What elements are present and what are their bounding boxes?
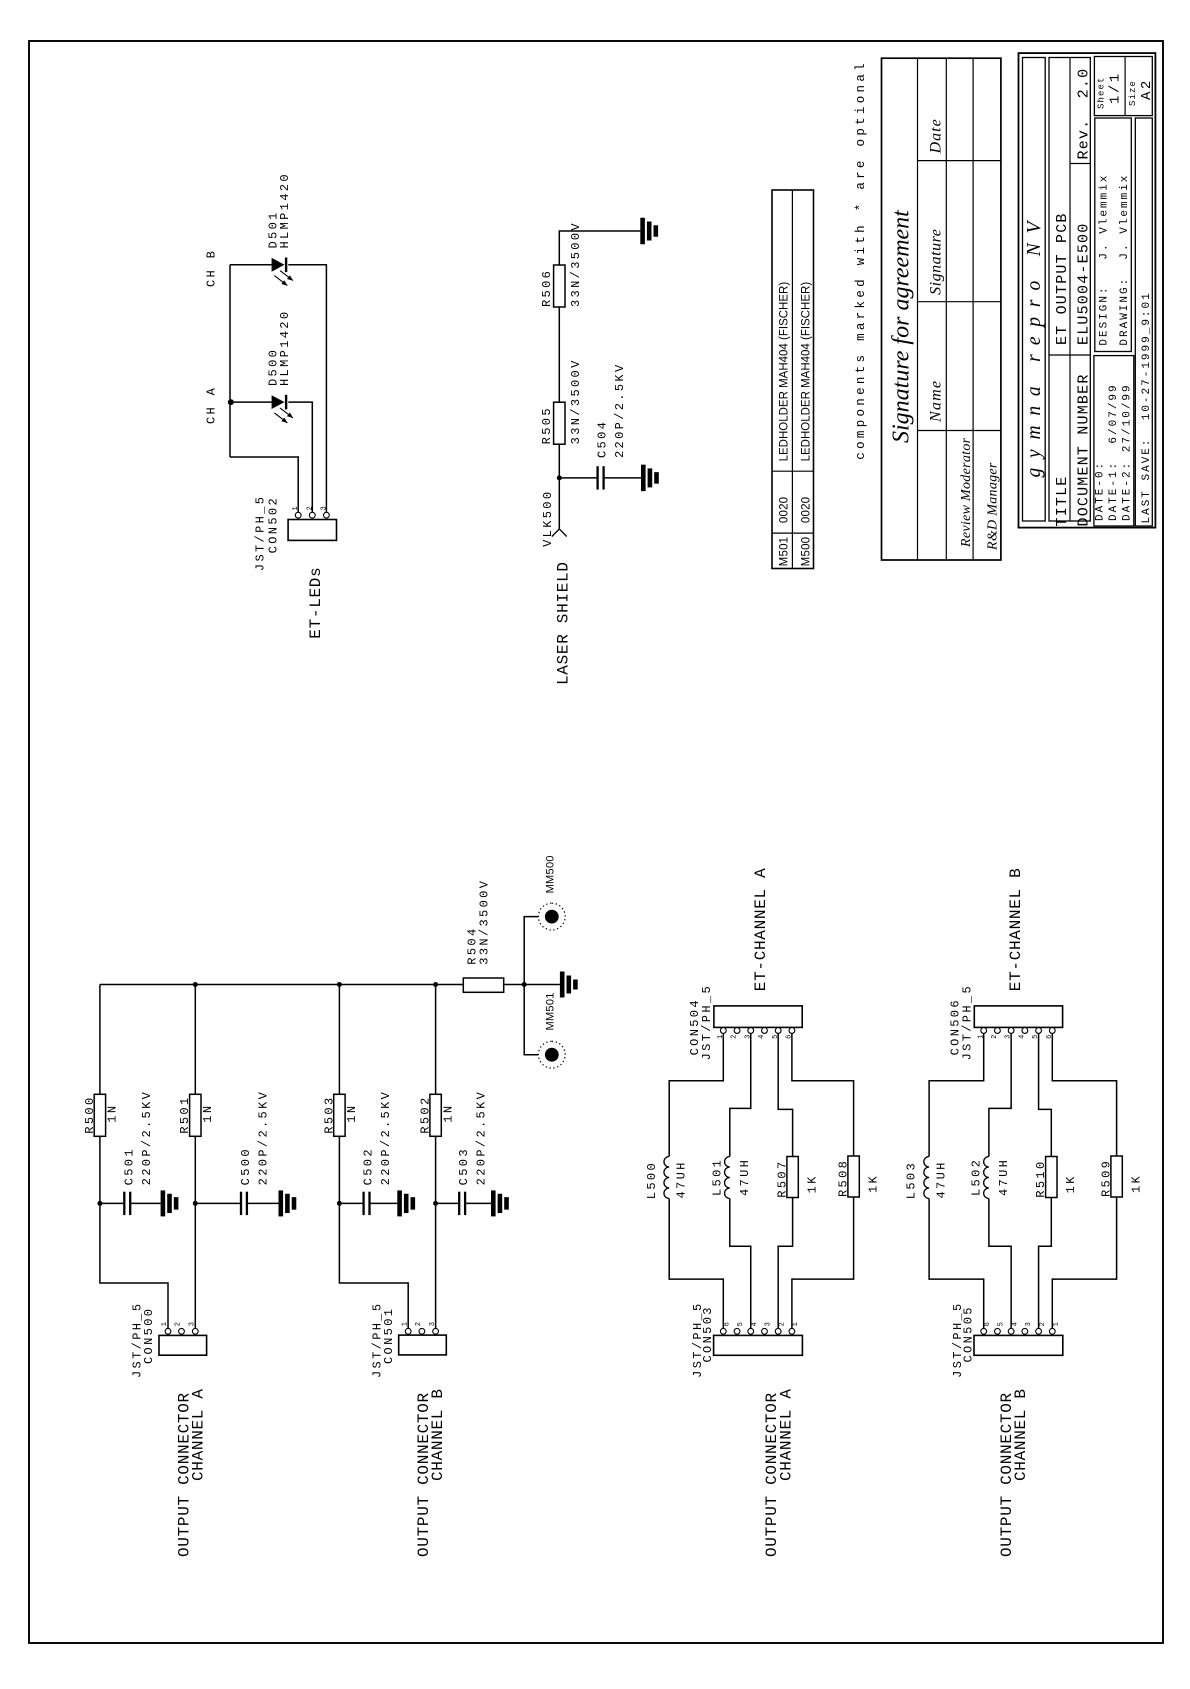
junction dot measurement node (522, 982, 527, 987)
CON505 pin 2 (1036, 1328, 1042, 1334)
wire R502 branch (435, 1136, 437, 1329)
inductor L501 (725, 1157, 730, 1199)
test point MM500 (538, 903, 565, 930)
connector CON502 body (JST/PH-5) (288, 520, 336, 541)
svg-text:3: 3 (320, 506, 328, 510)
svg-text:DRAWING: J. Vlemmix: DRAWING: J. Vlemmix (1119, 174, 1131, 346)
svg-text:2: 2 (731, 1035, 739, 1039)
resistor R501 (190, 1094, 201, 1136)
wire junction to C504 (559, 477, 597, 479)
svg-text:C502: C502 (362, 1147, 376, 1185)
svg-text:220P/2.5KV: 220P/2.5KV (379, 1090, 393, 1186)
wire top rail of LED block (229, 265, 231, 457)
svg-text:components marked with * are o: components marked with * are optional (854, 60, 868, 460)
svg-text:3: 3 (429, 1322, 437, 1326)
net stub VLK500 open arrow (552, 529, 559, 537)
wire C504 to ground (605, 477, 641, 479)
svg-text:1K: 1K (806, 1174, 820, 1193)
CON505 pin 1 (1049, 1328, 1055, 1334)
resistor R503 (334, 1094, 345, 1136)
wire R508 to CON504 pin6 (792, 1033, 854, 1156)
resistor R506 (554, 265, 565, 307)
svg-text:LEDHOLDER MAH404 (FISCHER): LEDHOLDER MAH404 (FISCHER) (779, 282, 791, 462)
CON500 pin 2 (179, 1328, 185, 1334)
CON503 pin 4 (748, 1328, 754, 1334)
connector CON506 body (JST/PH-5) (974, 1006, 1062, 1028)
wire R510 to CON506 pin5 (1039, 1033, 1052, 1156)
svg-text:47UH: 47UH (738, 1158, 752, 1196)
table of LED holders M500 M501 (772, 190, 814, 569)
svg-text:VLK500: VLK500 (541, 490, 555, 547)
svg-text:1K: 1K (1064, 1174, 1078, 1193)
svg-text:DATE-1: 6/07/99: DATE-1: 6/07/99 (1108, 383, 1120, 521)
svg-text:C501: C501 (122, 1147, 136, 1185)
wire CON503 pin6 to L500 (669, 1199, 723, 1329)
svg-text:ET OUTPUT PCB: ET OUTPUT PCB (1054, 212, 1071, 345)
wire R506 to ground (559, 231, 640, 265)
connector CON505 body (JST/PH-5) (974, 1335, 1063, 1355)
svg-text:L503: L503 (905, 1161, 919, 1199)
resistor R500 (94, 1094, 105, 1136)
svg-text:CHANNEL B: CHANNEL B (429, 1388, 447, 1481)
svg-text:CON505: CON505 (961, 1305, 975, 1362)
svg-text:LEDHOLDER MAH404 (FISCHER): LEDHOLDER MAH404 (FISCHER) (801, 282, 813, 462)
svg-text:LAST SAVE: 10-27-1999_9:01: LAST SAVE: 10-27-1999_9:01 (1141, 291, 1153, 523)
CON504 pin 6 (789, 1028, 795, 1034)
svg-text:4: 4 (1011, 1322, 1019, 1326)
svg-text:DATE-0:: DATE-0: (1095, 461, 1107, 521)
svg-text:4: 4 (758, 1035, 766, 1039)
svg-text:R509: R509 (1099, 1159, 1113, 1197)
wire VLK500 to junction (558, 444, 560, 529)
svg-text:R507: R507 (775, 1159, 789, 1197)
svg-text:1N: 1N (201, 1104, 215, 1123)
svg-text:Signature for agreement: Signature for agreement (889, 209, 915, 443)
CON502 pin 2 (309, 512, 315, 518)
wire C501 to ground (130, 1202, 161, 1204)
svg-text:2: 2 (306, 506, 314, 510)
CON503 pin 6 (720, 1328, 726, 1334)
wire R505 to R506 (558, 307, 560, 402)
svg-text:47UH: 47UH (674, 1160, 688, 1198)
wire R504 to junction (504, 984, 525, 986)
svg-text:Review Moderator: Review Moderator (959, 437, 974, 548)
CON503 pin 3 (762, 1328, 768, 1334)
svg-text:2: 2 (991, 1035, 999, 1039)
svg-text:Rev. 2.0: Rev. 2.0 (1076, 68, 1093, 160)
junction dot bus-R502 (433, 982, 438, 987)
wire CON505 pin6 to L503 (929, 1199, 984, 1329)
CON501 pin 3 (433, 1328, 439, 1334)
CON500 pin 1 (165, 1328, 171, 1334)
svg-text:3: 3 (1025, 1322, 1033, 1326)
connector CON500 body (JST/PH-5) (159, 1335, 207, 1355)
CON505 pin 5 (995, 1328, 1001, 1334)
ground symbol for C502 (397, 1190, 402, 1216)
wire CON503 pin4 to L501 (730, 1199, 751, 1329)
CON501 pin 1 (405, 1328, 411, 1334)
svg-text:1K: 1K (1130, 1174, 1144, 1193)
svg-text:CH B: CH B (205, 249, 219, 287)
resistor R508 (848, 1156, 859, 1197)
svg-text:R510: R510 (1034, 1159, 1048, 1197)
node junction dot on CH A branch (228, 399, 234, 405)
wire R501 to bus (194, 985, 196, 1095)
CON503 pin 1 (789, 1328, 795, 1334)
svg-text:ELU5004-E500: ELU5004-E500 (1076, 223, 1093, 345)
title block company band (1023, 58, 1046, 522)
title block title and document rows box (1049, 58, 1090, 522)
svg-text:gymna repro NV: gymna repro NV (1024, 212, 1045, 478)
CON504 pin 2 (734, 1028, 740, 1034)
wire D501 anode stem (230, 264, 272, 266)
resistor R504 (463, 978, 503, 992)
svg-text:R508: R508 (836, 1159, 850, 1197)
ground symbol for C504 (641, 465, 646, 492)
svg-text:5: 5 (737, 1322, 745, 1326)
svg-text:R503: R503 (322, 1095, 336, 1133)
svg-text:47UH: 47UH (934, 1160, 948, 1198)
wire R501 branch (194, 1136, 196, 1329)
inductor L503 (924, 1157, 929, 1199)
wire CON503 pin2 to R507 (778, 1198, 792, 1329)
svg-text:R501: R501 (178, 1095, 192, 1133)
CON502 pin 1 (295, 512, 301, 518)
junction dot VLK500 node (557, 475, 562, 480)
svg-text:1N: 1N (441, 1104, 455, 1123)
svg-text:1N: 1N (345, 1104, 359, 1123)
wire C503 to ground (465, 1202, 492, 1204)
wire junction to C503 (436, 1202, 460, 1204)
resistor R509 (1111, 1156, 1122, 1197)
CON503 pin 5 (734, 1328, 740, 1334)
LED D500 (272, 395, 285, 409)
svg-text:1N: 1N (106, 1104, 120, 1123)
svg-text:A2: A2 (1139, 78, 1155, 100)
svg-text:ET-LEDs: ET-LEDs (307, 567, 325, 639)
CON504 pin 3 (748, 1028, 754, 1034)
svg-text:220P/2.5KV: 220P/2.5KV (257, 1090, 271, 1186)
svg-text:Sheet: Sheet (1097, 76, 1107, 109)
capacitor C502 (362, 1192, 364, 1215)
svg-text:Date: Date (928, 118, 945, 154)
LED D501 (272, 258, 285, 272)
CON505 pin 3 (1022, 1328, 1028, 1334)
resistor R510 (1046, 1157, 1057, 1198)
capacitor C501 (123, 1192, 125, 1215)
wire R509 to CON506 pin6 (1052, 1033, 1116, 1156)
capacitor C500 (240, 1192, 242, 1215)
wire CON505 pin4 to L502 (989, 1199, 1011, 1329)
CON503 pin 2 (775, 1328, 781, 1334)
svg-text:MM501: MM501 (544, 992, 556, 1030)
title block outer frame (1019, 53, 1156, 528)
CON502 pin 3 (324, 512, 330, 518)
svg-text:1: 1 (401, 1322, 409, 1326)
ground symbol for C503 (491, 1190, 496, 1216)
CON506 pin 3 (1008, 1028, 1014, 1034)
wire junction to C501 (100, 1202, 125, 1204)
wire junction to main ground (524, 984, 560, 986)
svg-text:CON500: CON500 (142, 1307, 156, 1364)
wire junction to MM500 (524, 917, 538, 985)
svg-text:1/1: 1/1 (1108, 71, 1124, 104)
svg-text:ET-CHANNEL B: ET-CHANNEL B (1007, 868, 1025, 992)
junction dot C501 tap (97, 1201, 102, 1206)
junction dot C503 tap (433, 1201, 438, 1206)
CON506 pin 5 (1036, 1028, 1042, 1034)
CON506 pin 6 (1049, 1028, 1055, 1034)
CON505 pin 4 (1008, 1328, 1014, 1334)
CON504 pin 4 (762, 1028, 768, 1034)
svg-text:DOCUMENT NUMBER: DOCUMENT NUMBER (1076, 373, 1093, 526)
svg-text:CH A: CH A (205, 386, 219, 424)
capacitor C504 (596, 466, 598, 489)
wire CON502 pin3 to D501 cathode (288, 265, 326, 513)
CON505 pin 6 (981, 1328, 987, 1334)
title block last save box (1135, 118, 1152, 526)
connector CON504 body (JST/PH-5) (714, 1006, 802, 1028)
wire C502 to ground (369, 1202, 397, 1204)
capacitor C503 (458, 1192, 460, 1215)
wire junction to MM501 (524, 985, 538, 1055)
svg-text:Size: Size (1128, 80, 1138, 106)
CON504 pin 1 (720, 1028, 726, 1034)
svg-text:1: 1 (292, 506, 300, 510)
inductor L500 (664, 1157, 669, 1199)
wire R503 to bus (338, 985, 340, 1095)
svg-text:1: 1 (161, 1322, 169, 1326)
wire L501 to CON504 pin3 (730, 1033, 751, 1156)
svg-text:1: 1 (792, 1322, 800, 1326)
svg-text:JST/PH_5: JST/PH_5 (700, 984, 714, 1060)
wire CON503 pin1 to R508 (792, 1197, 854, 1329)
wire L502 to CON506 pin3 (989, 1033, 1011, 1156)
svg-text:M500: M500 (801, 537, 813, 567)
svg-text:Name: Name (928, 380, 945, 423)
svg-text:6: 6 (984, 1322, 992, 1326)
ground symbol after R506 (640, 218, 645, 245)
svg-text:R506: R506 (540, 269, 554, 307)
svg-text:2: 2 (175, 1322, 183, 1326)
svg-text:C500: C500 (239, 1147, 253, 1185)
svg-text:R500: R500 (83, 1095, 97, 1133)
svg-text:2: 2 (1039, 1322, 1047, 1326)
wire R500 to bus (99, 985, 101, 1095)
svg-text:47UH: 47UH (997, 1158, 1011, 1196)
wire CON502 pin2 to D500 cathode (288, 402, 312, 512)
svg-text:0020: 0020 (801, 497, 813, 523)
svg-text:2: 2 (778, 1322, 786, 1326)
svg-text:33N/3500V: 33N/3500V (569, 358, 583, 444)
resistor R507 (787, 1157, 798, 1198)
svg-text:MM500: MM500 (544, 855, 556, 893)
title block sheet size box (1094, 57, 1152, 116)
svg-text:4: 4 (1018, 1035, 1026, 1039)
wire R503 branch (339, 1136, 408, 1329)
junction dot bus-R503 (337, 982, 342, 987)
ground symbol main (560, 972, 565, 998)
svg-text:ET-CHANNEL A: ET-CHANNEL A (752, 868, 770, 992)
wire D500 anode stem (230, 401, 272, 403)
connector CON503 body (JST/PH-5) (714, 1335, 803, 1355)
CON506 pin 2 (995, 1028, 1001, 1034)
svg-text:3: 3 (189, 1322, 197, 1326)
svg-text:4: 4 (751, 1322, 759, 1326)
svg-text:C503: C503 (457, 1147, 471, 1185)
wire CON502 pin1 to CH A net (230, 457, 298, 512)
svg-text:Signature: Signature (928, 229, 945, 295)
svg-text:HLMP1420: HLMP1420 (278, 172, 292, 248)
svg-text:33N/3500V: 33N/3500V (478, 879, 492, 965)
svg-text:LASER SHIELD: LASER SHIELD (554, 561, 572, 685)
signature table frame (882, 58, 1001, 560)
inductor L502 (984, 1157, 989, 1199)
wire R502 to bus (435, 985, 437, 1095)
resistor R502 (430, 1094, 441, 1136)
svg-text:0020: 0020 (779, 497, 791, 523)
svg-text:33N/3500V: 33N/3500V (569, 221, 583, 307)
svg-text:HLMP1420: HLMP1420 (278, 310, 292, 386)
test point MM501 (538, 1041, 565, 1068)
svg-text:CON503: CON503 (701, 1305, 715, 1362)
resistor R505 (554, 402, 565, 444)
svg-text:CHANNEL A: CHANNEL A (777, 1388, 795, 1481)
svg-text:5: 5 (998, 1322, 1006, 1326)
wire junction to C502 (339, 1202, 364, 1204)
svg-text:CON502: CON502 (266, 496, 280, 553)
ground symbol for C500 (279, 1190, 284, 1216)
title block design box (1095, 118, 1132, 352)
svg-text:CHANNEL A: CHANNEL A (190, 1388, 208, 1481)
svg-text:2: 2 (415, 1322, 423, 1326)
svg-text:R505: R505 (540, 406, 554, 444)
CON501 pin 2 (419, 1328, 425, 1334)
svg-text:CHANNEL B: CHANNEL B (1012, 1388, 1030, 1481)
wire C500 to ground (246, 1202, 278, 1204)
junction dot bus-R501 (193, 982, 198, 987)
svg-text:R502: R502 (419, 1095, 433, 1133)
svg-text:CON501: CON501 (382, 1307, 396, 1364)
svg-text:220P/2.5KV: 220P/2.5KV (475, 1090, 489, 1186)
svg-text:DATE-2: 27/10/99: DATE-2: 27/10/99 (1122, 383, 1134, 521)
title block date box (1094, 356, 1134, 526)
CON506 pin 4 (1022, 1028, 1028, 1034)
wire R500 branch (100, 1136, 168, 1329)
ground symbol for C501 (161, 1190, 166, 1216)
junction dot C500 tap (193, 1201, 198, 1206)
svg-text:DESIGN: J. Vlemmix: DESIGN: J. Vlemmix (1099, 174, 1111, 346)
connector CON501 body (JST/PH-5) (399, 1335, 447, 1355)
wire vertical bus of output resistors (100, 984, 463, 986)
svg-text:1: 1 (1053, 1322, 1061, 1326)
svg-text:L500: L500 (645, 1161, 659, 1199)
svg-text:6: 6 (724, 1322, 732, 1326)
svg-text:L501: L501 (710, 1158, 724, 1196)
svg-text:C504: C504 (596, 420, 610, 458)
wire CON505 pin2 to R510 (1039, 1198, 1052, 1329)
svg-text:3: 3 (765, 1322, 773, 1326)
CON506 pin 1 (981, 1028, 987, 1034)
svg-text:TITLE: TITLE (1054, 475, 1071, 526)
wire junction to C500 (195, 1202, 241, 1204)
wire L503 to CON506 pin1 (929, 1033, 984, 1156)
svg-text:220P/2.5KV: 220P/2.5KV (613, 362, 627, 458)
svg-text:1K: 1K (867, 1174, 881, 1193)
svg-text:L502: L502 (970, 1158, 984, 1196)
wire CON505 pin1 to R509 (1052, 1197, 1116, 1329)
CON500 pin 3 (192, 1328, 198, 1334)
wire R507 to CON504 pin5 (778, 1033, 792, 1156)
CON504 pin 5 (775, 1028, 781, 1034)
svg-text:JST/PH_5: JST/PH_5 (960, 984, 974, 1060)
svg-text:220P/2.5KV: 220P/2.5KV (140, 1090, 154, 1186)
svg-text:M501: M501 (779, 537, 791, 567)
wire L500 to CON504 pin1 (669, 1033, 723, 1156)
svg-text:R&D Manager: R&D Manager (985, 462, 1000, 551)
junction dot C502 tap (337, 1201, 342, 1206)
